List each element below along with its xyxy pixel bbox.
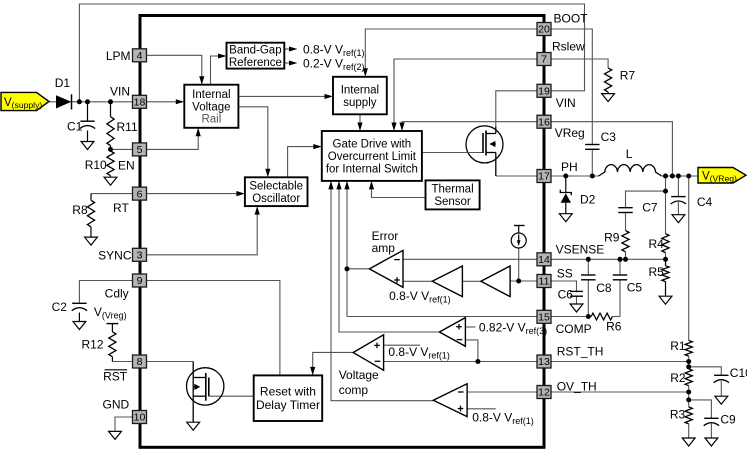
svg-text:Internal: Internal [192,89,230,101]
svg-text:for Internal Switch: for Internal Switch [326,163,418,175]
svg-text:C8: C8 [596,281,612,295]
svg-text:R3: R3 [670,407,686,421]
svg-text:C2: C2 [52,300,68,314]
svg-text:VSENSE: VSENSE [556,243,605,257]
svg-text:9: 9 [137,275,143,287]
svg-text:Overcurrent Limit: Overcurrent Limit [328,151,417,163]
svg-text:R10: R10 [85,158,107,172]
svg-text:amp: amp [372,241,396,255]
svg-text:5: 5 [137,144,143,156]
svg-text:C3: C3 [601,130,617,144]
svg-text:L: L [626,147,633,161]
svg-text:VIN: VIN [110,85,130,99]
svg-text:EN: EN [118,159,135,173]
svg-text:RT: RT [113,201,129,215]
svg-text:comp: comp [339,383,369,397]
svg-text:RST_TH: RST_TH [557,344,604,358]
svg-text:Sensor: Sensor [434,196,471,208]
svg-text:C6: C6 [558,288,574,302]
svg-text:SS: SS [557,266,573,280]
svg-text:PH: PH [561,160,578,174]
svg-text:Band-Gap: Band-Gap [229,45,281,57]
svg-text:C7: C7 [642,201,658,215]
svg-text:10: 10 [134,412,146,424]
svg-text:C1: C1 [67,120,83,134]
svg-text:Gate Drive with: Gate Drive with [333,139,412,151]
svg-text:R6: R6 [606,320,622,334]
svg-text:Internal: Internal [341,84,379,96]
svg-text:8: 8 [137,356,143,368]
svg-text:Voltage: Voltage [339,368,379,382]
svg-text:Cdly: Cdly [105,287,129,301]
svg-text:GND: GND [103,398,130,412]
svg-text:7: 7 [541,54,547,66]
svg-text:Reference: Reference [229,57,282,69]
svg-text:Thermal: Thermal [431,184,473,196]
svg-text:R1: R1 [670,339,686,353]
svg-text:14: 14 [538,254,550,266]
svg-text:17: 17 [538,171,550,183]
svg-text:SYNC: SYNC [98,249,132,263]
svg-text:18: 18 [134,97,146,109]
svg-text:R8: R8 [72,203,88,217]
svg-text:VIN: VIN [556,96,576,110]
svg-text:12: 12 [538,387,550,399]
svg-text:19: 19 [538,86,550,98]
svg-text:OV_TH: OV_TH [557,380,597,394]
svg-text:Rslew: Rslew [552,40,585,54]
svg-text:C5: C5 [627,280,643,294]
svg-text:R11: R11 [117,120,138,134]
svg-text:15: 15 [538,312,550,324]
svg-text:6: 6 [137,188,143,200]
svg-text:COMP: COMP [556,322,592,336]
svg-text:supply: supply [343,97,376,109]
svg-text:C10: C10 [730,366,747,380]
svg-text:R2: R2 [670,371,686,385]
svg-text:Selectable: Selectable [249,181,303,193]
svg-text:D1: D1 [55,76,71,90]
svg-text:R7: R7 [620,68,636,82]
svg-text:R5: R5 [649,265,665,279]
svg-text:16: 16 [538,116,550,128]
svg-text:20: 20 [538,24,550,36]
svg-text:13: 13 [538,356,550,368]
svg-text:Rail: Rail [201,114,221,126]
svg-text:Voltage: Voltage [192,101,230,113]
svg-text:Oscillator: Oscillator [252,193,300,205]
svg-text:R9: R9 [604,230,620,244]
svg-text:RST: RST [103,370,128,384]
svg-text:D2: D2 [580,192,596,206]
svg-text:BOOT: BOOT [554,11,589,25]
svg-text:Reset with: Reset with [260,385,316,399]
svg-text:R4: R4 [649,237,665,251]
svg-text:3: 3 [137,250,143,262]
svg-text:R12: R12 [82,338,104,352]
svg-text:4: 4 [137,50,143,62]
svg-text:C4: C4 [697,195,713,209]
svg-text:VReg: VReg [555,126,585,140]
svg-text:Delay Timer: Delay Timer [256,398,320,412]
svg-text:C9: C9 [720,412,736,426]
svg-text:LPM: LPM [106,49,131,63]
svg-text:11: 11 [539,276,550,288]
